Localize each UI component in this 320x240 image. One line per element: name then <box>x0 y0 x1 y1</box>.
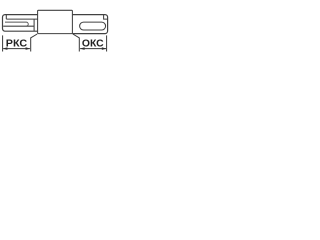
svg-text:ОКС: ОКС <box>82 38 104 49</box>
svg-text:РКС: РКС <box>6 38 27 49</box>
